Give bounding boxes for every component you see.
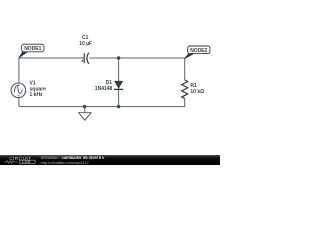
footer url line <box>41 160 89 165</box>
node NODE1 box <box>22 44 44 52</box>
diode D1 triangle <box>114 81 123 89</box>
capacitor C1 plus sign <box>81 60 84 63</box>
svg-text:NODE2: NODE2 <box>190 48 207 54</box>
wire bottom rail <box>19 106 185 108</box>
wire R1 bottom lead <box>184 99 186 107</box>
footer credit line <box>41 155 105 160</box>
ground triangle <box>79 113 92 121</box>
V1 minus sign <box>17 95 20 97</box>
svg-text:LAB: LAB <box>22 160 30 164</box>
V1 sine glyph <box>14 86 22 94</box>
capacitor C1 right curved plate <box>87 53 89 64</box>
ground stub <box>84 107 86 113</box>
wire diode branch vertical <box>118 58 120 107</box>
footer CircuitLab logo <box>0 155 40 165</box>
svg-text:1N4148: 1N4148 <box>95 86 113 92</box>
voltage source V1 circle <box>11 83 26 98</box>
resistor R1 zigzag <box>182 80 188 99</box>
V1 plus sign <box>18 84 20 86</box>
junction dot at ground <box>83 105 86 108</box>
node NODE2 box <box>188 46 210 54</box>
svg-text:NODE1: NODE1 <box>24 46 41 52</box>
svg-text:1 kHz: 1 kHz <box>30 92 44 98</box>
svg-text:10 µF: 10 µF <box>79 41 92 47</box>
node NODE1 flag pointer <box>19 52 28 58</box>
wire V1 bottom to bottom rail <box>18 97 20 106</box>
junction dot at diode bottom <box>117 105 120 108</box>
wire top left (NODE1 corner to capacitor) <box>19 57 84 59</box>
svg-text:10 kΩ: 10 kΩ <box>190 89 204 95</box>
wire right vertical R1 top lead <box>184 58 186 80</box>
junction dot at diode top <box>117 56 120 59</box>
wire top right (capacitor to NODE2 corner) <box>89 57 185 59</box>
wire left vertical (NODE1 to V1 top) <box>18 58 20 83</box>
footer bar <box>0 155 220 165</box>
capacitor C1 left plate <box>83 53 85 63</box>
node NODE2 flag pointer <box>185 54 194 59</box>
diode D1 cathode bar <box>114 88 123 90</box>
